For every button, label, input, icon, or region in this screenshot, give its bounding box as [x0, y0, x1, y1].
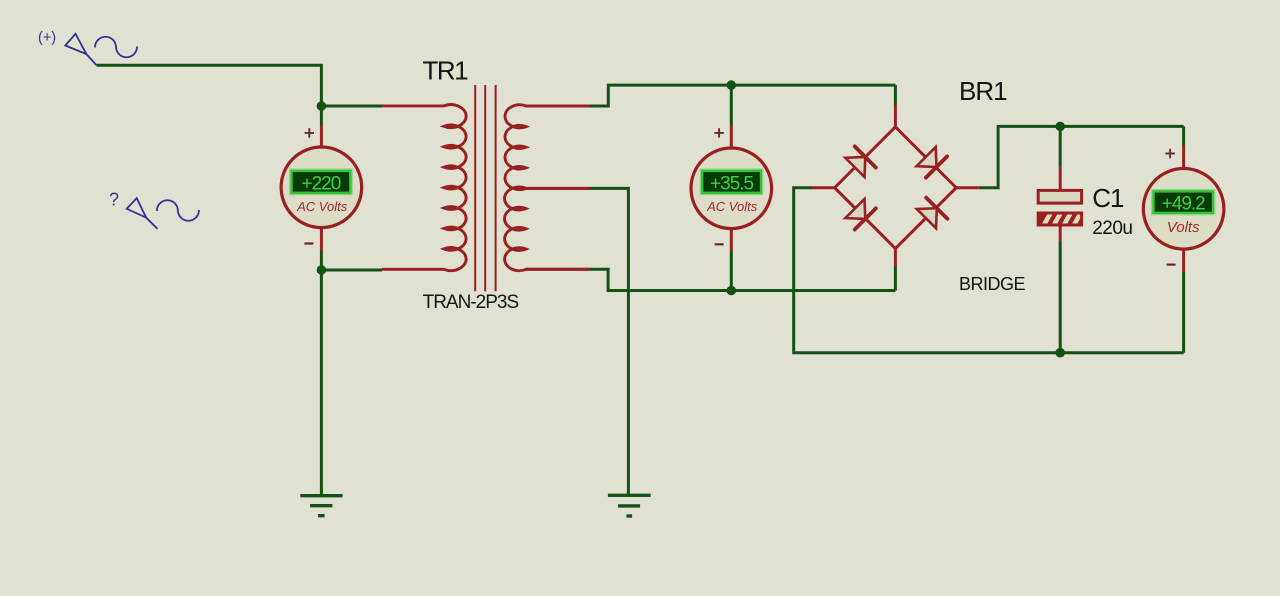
- svg-text:Volts: Volts: [1167, 219, 1200, 236]
- svg-text:TR1: TR1: [423, 55, 469, 85]
- svg-text:(+): (+): [38, 30, 56, 46]
- svg-text:+35.5: +35.5: [710, 173, 754, 194]
- svg-text:AC Volts: AC Volts: [706, 199, 758, 214]
- svg-text:?: ?: [109, 190, 119, 210]
- svg-text:TRAN-2P3S: TRAN-2P3S: [423, 292, 519, 313]
- svg-text:AC Volts: AC Volts: [296, 199, 348, 214]
- svg-text:BR1: BR1: [959, 76, 1007, 106]
- svg-text:C1: C1: [1092, 183, 1124, 213]
- svg-text:+220: +220: [302, 173, 341, 194]
- svg-text:+49.2: +49.2: [1162, 194, 1206, 215]
- svg-text:220u: 220u: [1092, 218, 1132, 239]
- svg-text:BRIDGE: BRIDGE: [959, 274, 1026, 294]
